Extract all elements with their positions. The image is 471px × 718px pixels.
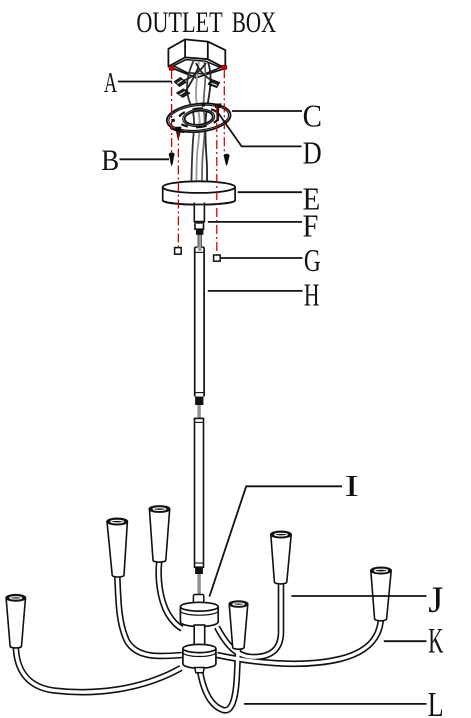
- svg-text:A: A: [104, 67, 117, 99]
- svg-text:C: C: [303, 98, 322, 134]
- svg-text:G: G: [304, 244, 321, 279]
- svg-text:BOX: BOX: [232, 5, 277, 39]
- svg-text:D: D: [303, 136, 322, 171]
- svg-text:I: I: [345, 470, 359, 503]
- svg-text:B: B: [101, 145, 119, 177]
- svg-text:F: F: [303, 208, 319, 244]
- svg-text:J: J: [428, 579, 443, 620]
- svg-text:K: K: [428, 622, 443, 661]
- svg-text:L: L: [428, 685, 444, 718]
- svg-text:H: H: [304, 277, 320, 312]
- svg-text:OUTLET: OUTLET: [136, 5, 222, 39]
